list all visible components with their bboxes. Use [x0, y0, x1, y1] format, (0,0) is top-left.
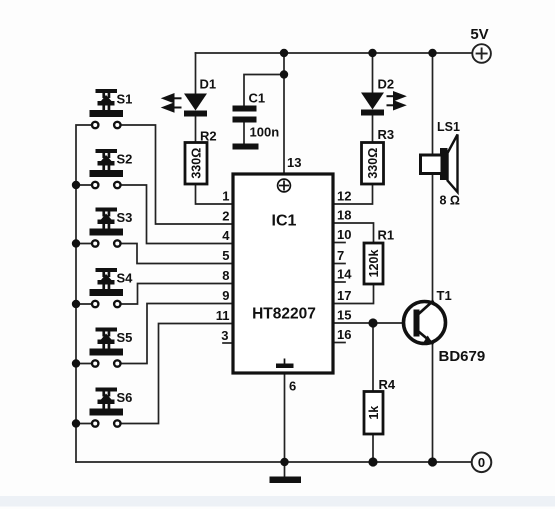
- junction dot rail/D2: [368, 49, 376, 57]
- svg-text:LS1: LS1: [437, 120, 460, 134]
- switch S6: [90, 388, 124, 427]
- wire pin 18 to R1 top: [333, 223, 374, 243]
- junction dot bus/S4: [72, 300, 80, 308]
- wire S3 to pin 5: [121, 244, 233, 264]
- svg-text:HT82207: HT82207: [252, 306, 316, 323]
- wire S4 left to bus: [76, 303, 92, 305]
- svg-text:S2: S2: [117, 152, 133, 167]
- svg-text:330Ω: 330Ω: [189, 148, 203, 179]
- resistor R3: [362, 143, 384, 185]
- svg-text:14: 14: [337, 267, 352, 282]
- transistor T1: [404, 301, 446, 345]
- ground bar below C1: [233, 144, 259, 150]
- wire pin 7 stub: [333, 263, 345, 265]
- IC internal ground mark: [276, 359, 294, 369]
- svg-text:S5: S5: [117, 330, 133, 345]
- svg-text:120k: 120k: [367, 250, 381, 278]
- svg-text:5V: 5V: [470, 26, 488, 43]
- svg-text:D1: D1: [200, 77, 217, 92]
- junction dot C1/pin13: [280, 70, 288, 78]
- junction dot rail/emitter: [428, 457, 437, 466]
- svg-text:10: 10: [337, 227, 351, 242]
- wire R3 to pin 12: [333, 184, 373, 204]
- junction dot rail/speaker: [428, 49, 436, 57]
- svg-text:17: 17: [337, 288, 351, 303]
- junction dot rail/pin6: [280, 458, 288, 466]
- wire C1 bottom to ground bar: [243, 123, 245, 145]
- LED D2 emission arrows: [387, 92, 405, 109]
- svg-text:16: 16: [337, 327, 351, 342]
- svg-text:0: 0: [478, 455, 485, 470]
- junction dot base/R4: [368, 318, 377, 327]
- wire pin 6 to rail: [284, 373, 286, 462]
- wire S4 to pin 8: [121, 284, 233, 305]
- wire S6 left to bus: [76, 423, 92, 425]
- wire S5 left to bus: [76, 363, 92, 365]
- junction dot bus/S6: [72, 419, 80, 427]
- junction dot bus/S5: [72, 359, 80, 367]
- wire rail to pin 13: [283, 53, 285, 174]
- wire left bus vertical: [76, 125, 92, 462]
- resistor R2: [185, 143, 207, 185]
- svg-text:D2: D2: [378, 77, 395, 92]
- wire D2 anode from rail: [372, 53, 374, 93]
- svg-text:3: 3: [221, 328, 228, 343]
- svg-text:R2: R2: [200, 129, 217, 144]
- wire emitter to rail: [432, 343, 434, 462]
- LED D1: [184, 94, 207, 117]
- wire rail to speaker top: [432, 53, 434, 155]
- svg-text:8: 8: [222, 268, 229, 283]
- svg-text:5: 5: [222, 248, 229, 263]
- wire S1 to pin 2: [121, 125, 233, 224]
- svg-text:S3: S3: [117, 210, 133, 225]
- svg-text:4: 4: [222, 228, 230, 243]
- switch S2: [90, 149, 124, 188]
- wire top supply rail: [196, 52, 473, 54]
- LED D2: [361, 93, 384, 116]
- supply terminal 5V: [472, 44, 491, 63]
- LED D1 emission arrows: [164, 95, 182, 112]
- svg-text:18: 18: [337, 208, 351, 223]
- wire R2 to pin 1: [196, 184, 234, 204]
- wire pin 14 stub: [333, 281, 345, 283]
- svg-text:2: 2: [222, 209, 229, 224]
- svg-text:11: 11: [216, 308, 230, 323]
- switch S3: [90, 208, 124, 247]
- svg-text:6: 6: [289, 379, 296, 394]
- junction dot bus/S2: [72, 181, 80, 189]
- svg-text:9: 9: [222, 288, 229, 303]
- junction dot rail/pin13: [280, 49, 288, 57]
- svg-text:IC1: IC1: [272, 213, 297, 230]
- svg-text:1k: 1k: [367, 406, 381, 420]
- wire bottom ground rail: [76, 461, 472, 463]
- wire S6 to pin 11: [121, 324, 233, 424]
- junction dot bus/S3: [72, 239, 80, 247]
- svg-text:7: 7: [337, 248, 344, 263]
- svg-text:T1: T1: [437, 288, 452, 303]
- wire S5 to pin 9: [121, 304, 233, 364]
- wire pin 10 stub: [333, 242, 345, 244]
- resistor R1: [364, 243, 383, 284]
- IC U1 HT82207 body: [233, 174, 333, 373]
- svg-text:100n: 100n: [250, 125, 280, 140]
- IC supply plus symbol: [278, 179, 291, 192]
- svg-text:13: 13: [287, 155, 301, 170]
- wire S2 to pin 4: [121, 185, 233, 244]
- wire node to R4 top: [372, 323, 374, 392]
- svg-text:R1: R1: [378, 228, 395, 243]
- capacitor C1: [233, 106, 257, 123]
- wire D1 anode from rail: [195, 53, 197, 94]
- switch S1: [90, 89, 124, 128]
- wire pin 3 stub: [223, 342, 233, 344]
- svg-text:C1: C1: [249, 91, 266, 106]
- junction dot rail/R4: [368, 457, 377, 466]
- switch S4: [90, 268, 124, 307]
- footer band: [0, 496, 555, 507]
- svg-text:S1: S1: [117, 92, 133, 107]
- wire speaker bottom to collector: [432, 174, 434, 303]
- svg-text:15: 15: [337, 308, 351, 323]
- svg-text:BD679: BD679: [439, 348, 486, 365]
- ground symbol bottom: [270, 477, 302, 484]
- switch S5: [90, 328, 124, 367]
- wire D1 cathode to R2: [195, 117, 197, 143]
- wire C1 top to pin13 node: [244, 75, 284, 107]
- svg-text:R4: R4: [379, 377, 396, 392]
- wire R4 bottom to rail: [372, 434, 374, 462]
- wire pin 15 to transistor base: [333, 322, 413, 324]
- svg-text:S6: S6: [117, 390, 133, 405]
- svg-text:R3: R3: [378, 127, 395, 142]
- svg-text:330Ω: 330Ω: [366, 148, 380, 179]
- wire S2 left to bus: [76, 184, 92, 186]
- wire ground stub below rail: [284, 462, 286, 477]
- svg-text:12: 12: [337, 189, 351, 204]
- wire R1 bottom to pin 17: [333, 284, 374, 304]
- wire S3 left to bus: [76, 243, 92, 245]
- wire D2 cathode to R3: [372, 116, 374, 143]
- wire pin 16 stub: [333, 342, 345, 344]
- resistor R4: [364, 392, 383, 435]
- speaker LS1: [421, 135, 458, 193]
- svg-text:8 Ω: 8 Ω: [440, 194, 460, 208]
- svg-text:1: 1: [222, 189, 229, 204]
- svg-text:S4: S4: [117, 271, 134, 286]
- ground terminal 0: [472, 453, 492, 473]
